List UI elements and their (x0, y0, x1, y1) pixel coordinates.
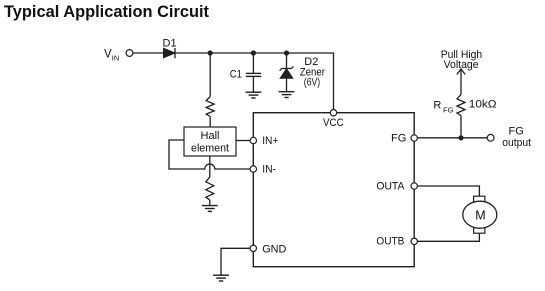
pin IN- (250, 166, 256, 172)
zener diode D2 (280, 53, 326, 92)
svg-text:(6V): (6V) (304, 76, 320, 88)
svg-text:GND: GND (262, 244, 286, 256)
wire top rail D1 to VCC corner (175, 53, 334, 110)
arrow to pull-high supply (457, 69, 465, 95)
svg-text:FG: FG (509, 125, 524, 137)
ground (C1) (246, 92, 262, 98)
svg-text:Typical Application Circuit: Typical Application Circuit (4, 2, 209, 21)
svg-text:FG: FG (391, 132, 406, 144)
svg-text:M: M (475, 208, 485, 222)
pin OUTA (411, 183, 417, 189)
svg-text:IN: IN (112, 53, 120, 62)
wire Hall bottom to R2 (209, 156, 211, 177)
pin OUTB (411, 238, 417, 244)
wire R2 to ground (209, 200, 211, 205)
terminal FG output (487, 134, 494, 141)
resistor R1 (bias to Hall) (206, 97, 214, 117)
junction node rail/R1 (208, 50, 213, 55)
wire GND pin to ground (221, 248, 250, 275)
resistor RFG 10k (457, 95, 465, 116)
op-amp U1 driver IC body (253, 113, 414, 267)
svg-text:C1: C1 (230, 69, 242, 81)
svg-text:Hall: Hall (201, 130, 220, 142)
svg-text:OUTA: OUTA (376, 180, 405, 192)
pin GND (250, 245, 256, 251)
resistor R2 (Hall bias to gnd) (206, 177, 214, 200)
pin FG (411, 135, 417, 141)
wire RFG to FG net (460, 116, 462, 138)
wire Hall left loop to IN- with crossover hop (169, 140, 250, 169)
pin VCC (330, 110, 336, 116)
svg-text:V: V (104, 48, 112, 60)
wire OUTB to motor (417, 233, 479, 241)
svg-text:IN+: IN+ (262, 135, 278, 147)
capacitor C1 (230, 53, 261, 92)
svg-text:output: output (502, 137, 531, 149)
svg-text:FG: FG (443, 105, 454, 114)
wire VIN to D1 (133, 52, 164, 54)
svg-text:R: R (433, 99, 441, 111)
terminal VIN (126, 50, 133, 57)
wire R1 to Hall (209, 117, 211, 128)
ground (GND pin) (213, 275, 229, 281)
svg-text:10kΩ: 10kΩ (469, 98, 497, 110)
wire Hall right to IN+ (236, 140, 250, 142)
pin IN+ (250, 137, 256, 143)
wire rail to R1 (209, 53, 211, 97)
svg-text:D1: D1 (163, 38, 177, 50)
wire OUTA to motor (417, 186, 479, 196)
motor M (463, 196, 497, 233)
svg-text:OUTB: OUTB (376, 236, 404, 248)
wire FG pin to output terminal (417, 137, 487, 139)
Hall element block (184, 127, 236, 156)
junction node rail/D2 (284, 50, 289, 55)
diode D1 (163, 38, 177, 59)
svg-text:VCC: VCC (323, 117, 344, 129)
ground (R2) (202, 206, 218, 212)
junction node rail/C1 (251, 50, 256, 55)
junction node FG/RFG (458, 135, 463, 140)
ground (D2) (279, 92, 295, 98)
svg-text:IN-: IN- (262, 163, 276, 175)
svg-text:element: element (191, 143, 229, 155)
